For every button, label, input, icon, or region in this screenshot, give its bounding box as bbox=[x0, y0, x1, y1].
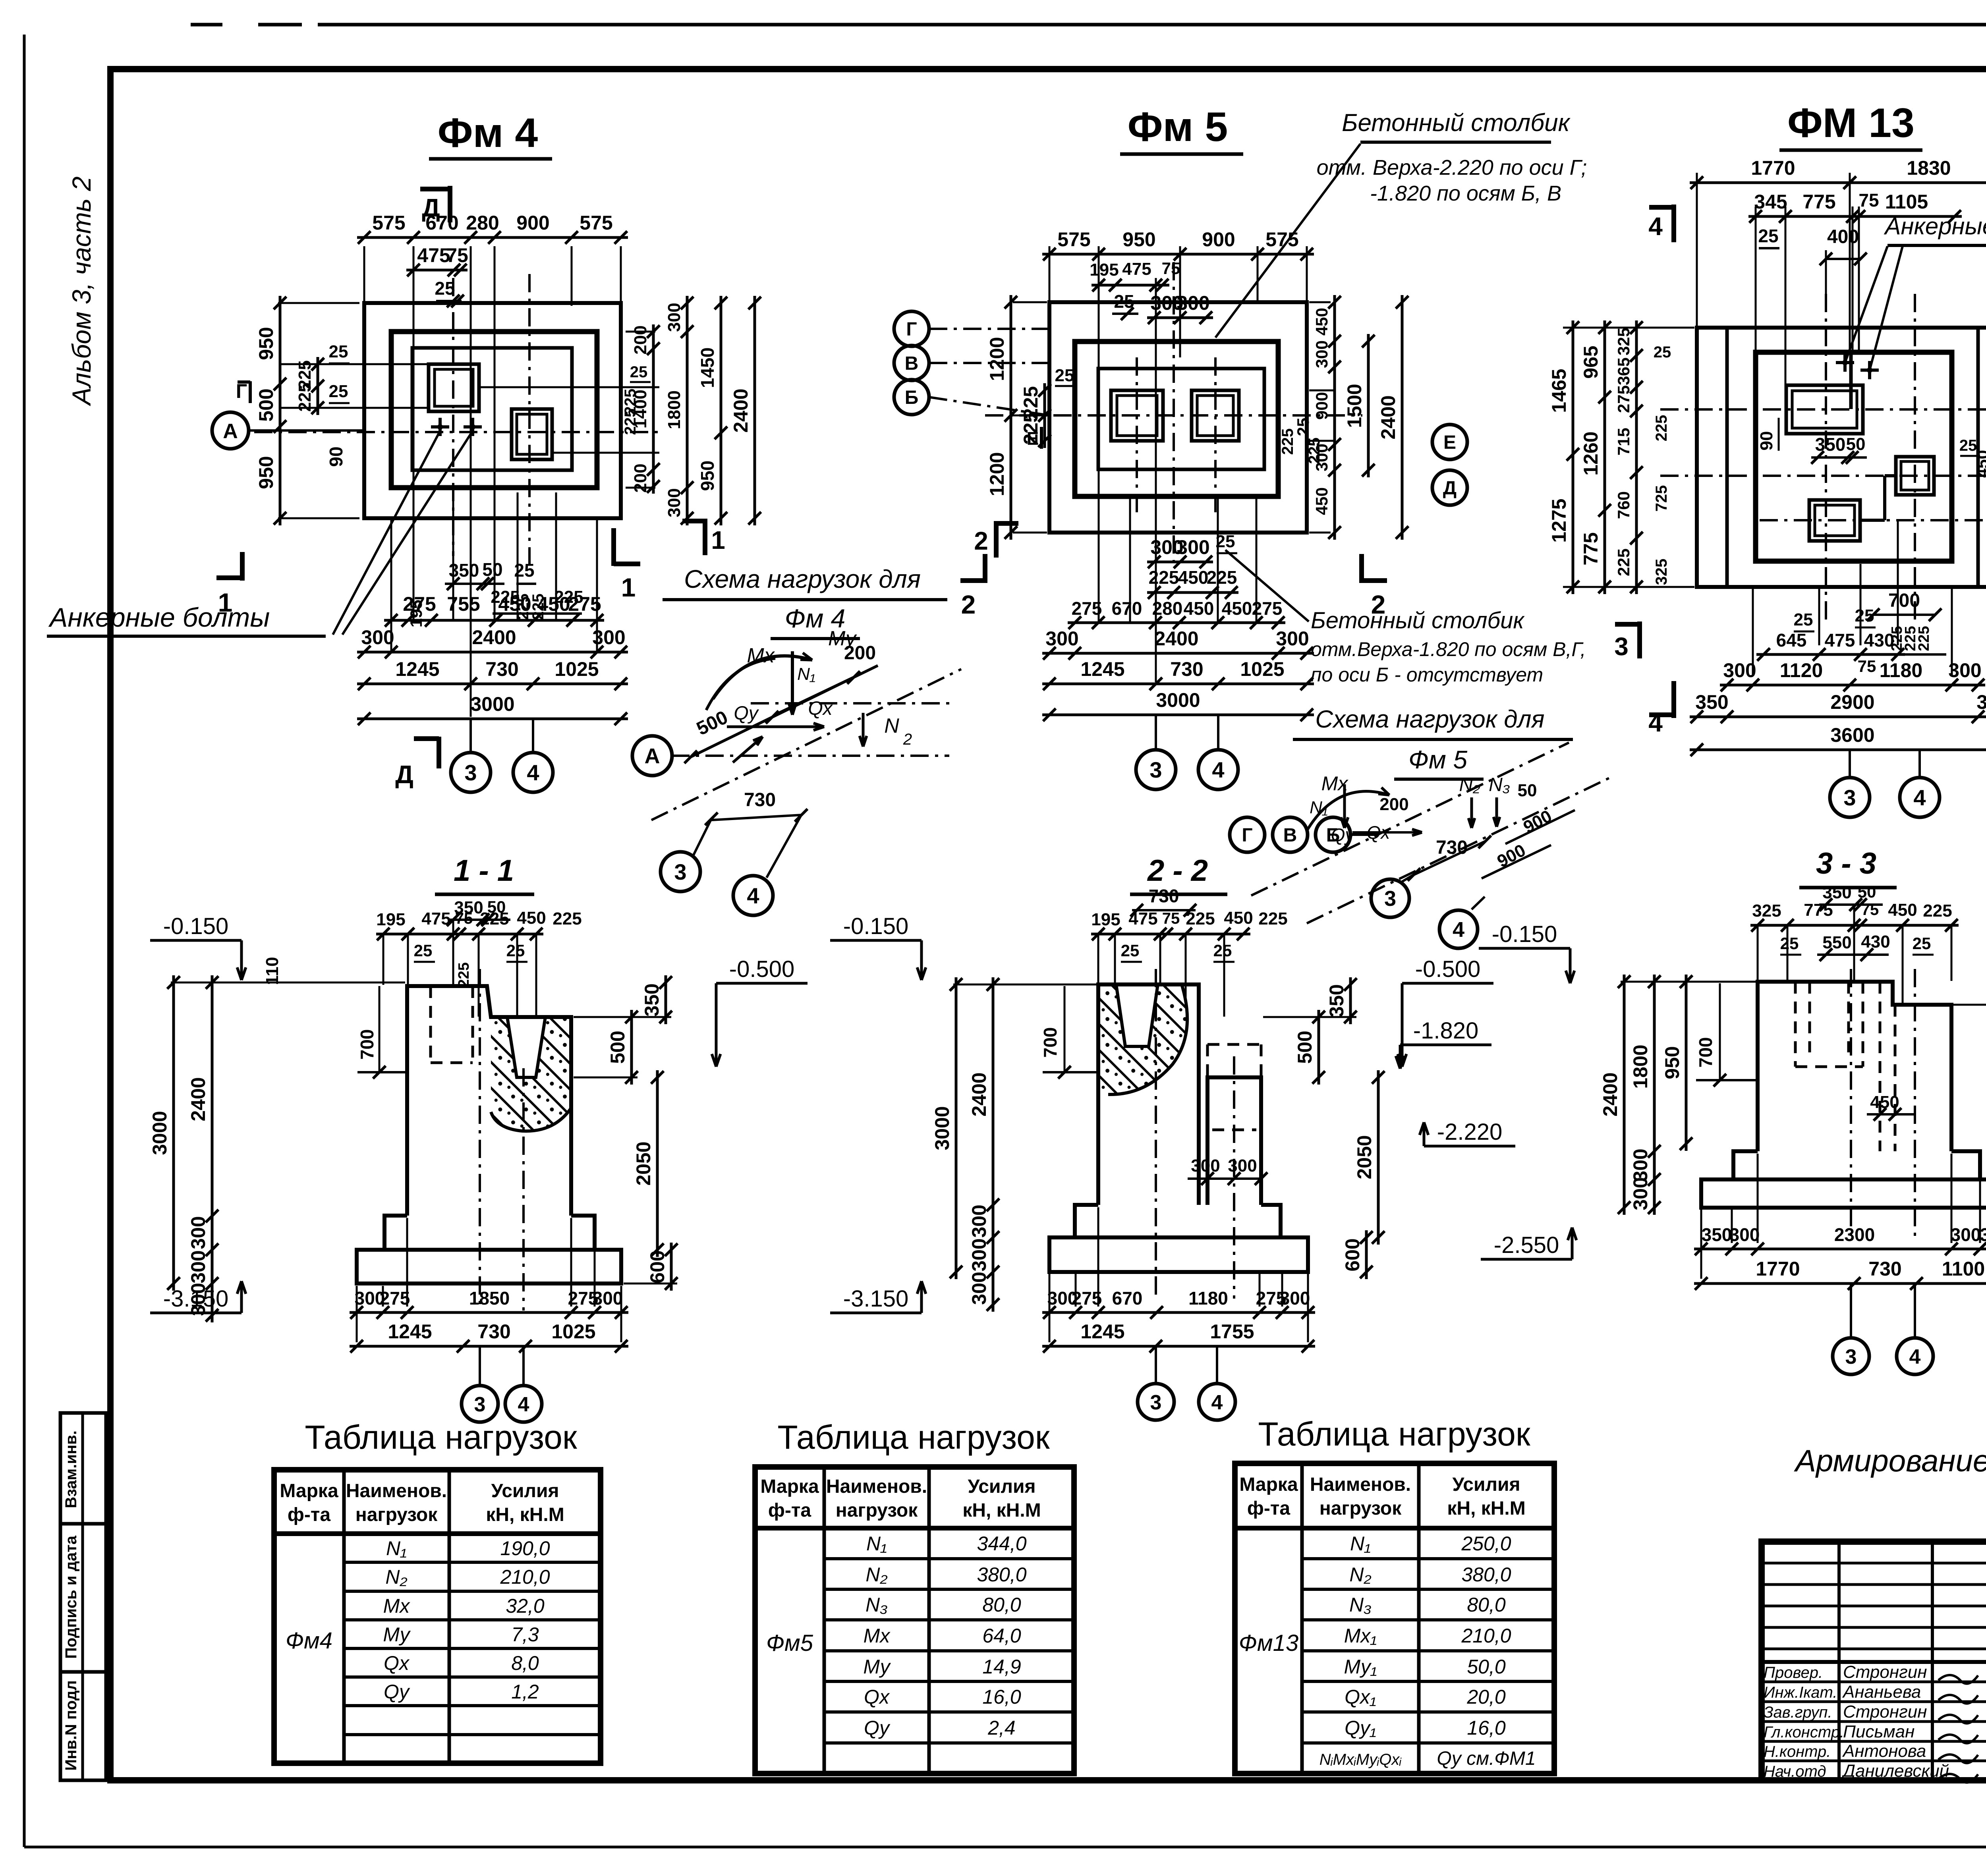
svg-text:16,0: 16,0 bbox=[1467, 1717, 1506, 1739]
svg-text:300: 300 bbox=[1276, 627, 1309, 650]
svg-text:отм. Верха-2.220 по оси Г;: отм. Верха-2.220 по оси Г; bbox=[1317, 156, 1587, 179]
plan FM4 section mark 1 right bbox=[611, 528, 616, 566]
svg-text:N₁: N₁ bbox=[1310, 798, 1328, 817]
svg-text:3: 3 bbox=[1843, 785, 1856, 810]
load table rows bbox=[1302, 1557, 1554, 1560]
svg-text:300: 300 bbox=[968, 1238, 990, 1271]
svg-text:Фм 4: Фм 4 bbox=[438, 110, 538, 156]
plan FM5 ext through bbox=[1155, 278, 1157, 682]
plan FM13 ext top bbox=[1696, 173, 1698, 330]
svg-text:N₂: N₂ bbox=[385, 1566, 407, 1588]
svg-text:575: 575 bbox=[580, 212, 612, 234]
plan FM4 dim right 200-1400-200 bbox=[626, 331, 655, 333]
plan FM13 outer slab bbox=[1697, 328, 1986, 587]
svg-text:4: 4 bbox=[747, 883, 759, 908]
svg-text:300: 300 bbox=[1228, 1156, 1257, 1175]
svg-text:950: 950 bbox=[255, 327, 277, 360]
svg-text:4: 4 bbox=[1913, 785, 1926, 810]
svg-text:300: 300 bbox=[1177, 536, 1209, 558]
svg-text:16,0: 16,0 bbox=[982, 1686, 1021, 1708]
section 1-1 dim bottom 1245-730-1025 bbox=[350, 1345, 628, 1348]
svg-text:Фм13: Фм13 bbox=[1239, 1630, 1298, 1656]
plan FM4 dim top 575-670-280-900-575 bbox=[357, 236, 628, 239]
svg-text:Таблица нагрузок: Таблица нагрузок bbox=[305, 1419, 577, 1456]
plan FM4 centerline horizontal bbox=[254, 431, 659, 433]
svg-text:3: 3 bbox=[464, 760, 477, 785]
svg-text:-0.150: -0.150 bbox=[843, 913, 908, 939]
svg-text:950: 950 bbox=[697, 461, 718, 491]
svg-text:Взам.инв.: Взам.инв. bbox=[62, 1430, 80, 1508]
plan FM13 dim top 1770-1830 bbox=[1690, 181, 1986, 184]
svg-text:700: 700 bbox=[1888, 590, 1920, 611]
svg-text:450: 450 bbox=[537, 593, 570, 615]
load scheme FM4 force Qx arrow bbox=[727, 726, 824, 728]
title block frame bbox=[1762, 1542, 1986, 1780]
plan FM4 dim right 300-1800-300 bbox=[686, 296, 689, 525]
load scheme FM5 bubbles G V B bbox=[1230, 817, 1265, 852]
svg-text:3000: 3000 bbox=[931, 1106, 953, 1150]
svg-text:Марка: Марка bbox=[1239, 1474, 1298, 1495]
plan FM4 anchor plate A bbox=[429, 364, 479, 411]
svg-text:Mx: Mx bbox=[383, 1595, 411, 1617]
svg-text:600: 600 bbox=[1341, 1238, 1364, 1271]
section 2-2 hatch zone bbox=[1098, 984, 1187, 1094]
svg-text:32,0: 32,0 bbox=[506, 1595, 545, 1617]
svg-text:2400: 2400 bbox=[1154, 627, 1198, 650]
svg-text:345: 345 bbox=[1754, 191, 1787, 213]
plan FM5 dim bottom 225-450-225 bbox=[1147, 591, 1238, 594]
svg-text:Qx: Qx bbox=[384, 1652, 410, 1674]
svg-text:Qу: Qу bbox=[734, 703, 759, 724]
title block signatures scribbles bbox=[1938, 1675, 1978, 1684]
plan FM4 dim left 225-225 bbox=[317, 357, 319, 415]
svg-text:755: 755 bbox=[447, 593, 480, 615]
svg-text:3000: 3000 bbox=[1156, 689, 1200, 711]
load scheme FM4 force Qy arrow bbox=[733, 737, 763, 762]
svg-text:700: 700 bbox=[1695, 1037, 1716, 1068]
svg-text:N: N bbox=[884, 714, 899, 737]
plan FM4 outer slab 3000x2400 bbox=[364, 303, 621, 518]
svg-text:50: 50 bbox=[1518, 781, 1537, 800]
svg-text:450: 450 bbox=[498, 593, 531, 615]
plan FM13 dim left stack 1465-1275 bbox=[1563, 327, 1694, 329]
title block revision grid bbox=[1837, 1542, 1841, 1780]
svg-text:325: 325 bbox=[1752, 901, 1781, 921]
svg-text:Фм 5: Фм 5 bbox=[1128, 104, 1228, 150]
section 2-2 step1 bbox=[1075, 1205, 1281, 1237]
svg-text:4: 4 bbox=[1212, 757, 1224, 782]
svg-text:А: А bbox=[645, 744, 660, 768]
section 3-3 top dims row bbox=[1750, 924, 1959, 927]
svg-text:275: 275 bbox=[403, 593, 436, 615]
svg-text:по оси Б - отсутствует: по оси Б - отсутствует bbox=[1311, 664, 1543, 686]
section 2-2 dim right 2050 bbox=[1377, 1070, 1380, 1245]
plan FM13 plate2 L-connect bbox=[1860, 519, 1885, 522]
plan FM5 column plate A bbox=[1111, 390, 1163, 441]
svg-text:300: 300 bbox=[665, 303, 684, 332]
svg-text:Qу: Qу bbox=[864, 1717, 891, 1739]
plan FM4 section mark D top bbox=[448, 186, 452, 222]
plan FM13 plate 1 bbox=[1786, 385, 1863, 434]
svg-text:225: 225 bbox=[1306, 438, 1323, 464]
plan FM13 section mark 4 bottom bbox=[1671, 681, 1676, 718]
section 1-1 bubbles 3 4 bbox=[479, 1346, 481, 1385]
svg-text:75: 75 bbox=[1858, 190, 1879, 210]
svg-text:210,0: 210,0 bbox=[500, 1566, 550, 1588]
svg-text:1465: 1465 bbox=[1548, 369, 1570, 413]
load scheme FM5 bubble 3 bbox=[1402, 874, 1414, 882]
svg-text:Армирование ф-тов см. лист 14,: Армирование ф-тов см. лист 14, 17. bbox=[1794, 1443, 1986, 1478]
section 3-3 dim left 950 700 bbox=[1685, 975, 1688, 1151]
svg-text:Схема нагрузок для: Схема нагрузок для bbox=[684, 565, 921, 593]
svg-text:225: 225 bbox=[1186, 909, 1215, 928]
section 1-1 centerline 4 bbox=[522, 1068, 525, 1310]
load scheme FM5 N2 N3 arrows bbox=[1470, 797, 1473, 828]
plan FM4 dim top 475-75 bbox=[406, 269, 468, 272]
svg-text:Данилевский: Данилевский bbox=[1841, 1761, 1949, 1781]
svg-text:645: 645 bbox=[1776, 630, 1807, 650]
svg-text:1450: 1450 bbox=[697, 347, 718, 388]
section 3-3 hidden socket bbox=[1794, 982, 1797, 1067]
plan FM13 side strips bbox=[1725, 328, 1729, 587]
svg-text:Схема нагрузок для: Схема нагрузок для bbox=[1315, 706, 1544, 733]
section 1-1 hidden dashed lines bbox=[429, 986, 432, 1063]
svg-text:4: 4 bbox=[1648, 212, 1663, 241]
svg-text:50,0: 50,0 bbox=[1467, 1656, 1506, 1678]
plan FM4 dim left 950-500-950 bbox=[278, 302, 359, 304]
section 3-3 step1 bbox=[1733, 1151, 1980, 1179]
anchor bolts leaders FM4 bbox=[333, 431, 440, 635]
svg-text:3: 3 bbox=[1150, 1391, 1162, 1414]
plan FM4 dim bottom 3000 bbox=[357, 718, 628, 720]
svg-text:Qу см.ФМ1: Qу см.ФМ1 bbox=[1437, 1748, 1536, 1769]
svg-text:50: 50 bbox=[1846, 434, 1866, 454]
svg-text:275: 275 bbox=[568, 593, 601, 615]
svg-text:300: 300 bbox=[187, 1250, 209, 1283]
svg-text:Фм 5: Фм 5 bbox=[1408, 745, 1468, 774]
section 2-2 left column outline bbox=[1098, 984, 1199, 1205]
svg-text:1500: 1500 bbox=[1343, 384, 1366, 428]
plan FM5 dim right 450-300-900-300-450 bbox=[1309, 301, 1331, 303]
svg-text:25: 25 bbox=[1913, 934, 1931, 953]
svg-text:275: 275 bbox=[1252, 598, 1283, 619]
load table frame bbox=[755, 1467, 1074, 1774]
svg-text:Антонова: Антонова bbox=[1842, 1741, 1926, 1761]
svg-text:В: В bbox=[905, 353, 919, 374]
svg-text:730: 730 bbox=[1170, 658, 1203, 680]
plan FM5 ext top bbox=[1049, 246, 1051, 304]
svg-text:В: В bbox=[1283, 825, 1297, 846]
plan FM13 dim bottom 300-1120-1180-300 bbox=[1720, 684, 1985, 687]
svg-text:N₂: N₂ bbox=[1459, 774, 1480, 795]
svg-text:-3.150: -3.150 bbox=[163, 1286, 228, 1312]
load scheme FM5 N1 arrow bbox=[1343, 784, 1346, 828]
svg-text:730: 730 bbox=[485, 658, 518, 680]
svg-text:300: 300 bbox=[1723, 659, 1756, 681]
svg-text:25: 25 bbox=[329, 342, 348, 361]
svg-text:Му: Му bbox=[828, 627, 857, 650]
svg-text:730: 730 bbox=[477, 1320, 510, 1343]
svg-text:N₁: N₁ bbox=[386, 1537, 407, 1559]
svg-text:2: 2 bbox=[903, 731, 912, 748]
svg-text:3000: 3000 bbox=[470, 693, 514, 715]
svg-text:-0.150: -0.150 bbox=[163, 913, 228, 939]
section 2-2 bottom slab bbox=[1049, 1237, 1308, 1272]
svg-text:нагрузок: нагрузок bbox=[355, 1504, 438, 1525]
svg-text:Mx: Mx bbox=[864, 1625, 891, 1647]
svg-text:3: 3 bbox=[474, 1393, 486, 1416]
svg-text:25: 25 bbox=[1654, 344, 1671, 361]
svg-text:Зав.груп.: Зав.груп. bbox=[1764, 1704, 1832, 1721]
load scheme FM4 dim 200 bbox=[775, 666, 878, 715]
svg-text:Фм4: Фм4 bbox=[286, 1628, 332, 1654]
svg-text:N₁: N₁ bbox=[1350, 1532, 1371, 1555]
svg-text:2400: 2400 bbox=[968, 1072, 990, 1116]
svg-text:Н.контр.: Н.контр. bbox=[1764, 1743, 1831, 1760]
svg-text:325: 325 bbox=[1614, 328, 1633, 355]
load scheme FM5 moment arc bbox=[1307, 791, 1389, 831]
plan FM4 ext bottom bbox=[390, 520, 392, 651]
section 2-2 ext bottom bbox=[1049, 1274, 1051, 1342]
svg-text:1755: 1755 bbox=[1210, 1320, 1254, 1343]
svg-text:700: 700 bbox=[1040, 1027, 1061, 1058]
svg-text:N₃: N₃ bbox=[865, 1594, 888, 1616]
section 1-1 dim right 500 bbox=[630, 1010, 633, 1085]
svg-text:3: 3 bbox=[1614, 632, 1629, 661]
plan FM5 axis bubbles E D bbox=[1432, 425, 1467, 459]
svg-text:190,0: 190,0 bbox=[500, 1537, 550, 1559]
section 3-3 dim left 2400 bbox=[1621, 981, 1756, 983]
svg-text:730: 730 bbox=[744, 789, 776, 811]
plan FM13 axis bubbles 3 4 bbox=[1849, 750, 1851, 776]
svg-text:670: 670 bbox=[1112, 1288, 1143, 1309]
svg-text:475: 475 bbox=[1128, 909, 1157, 928]
svg-text:300: 300 bbox=[361, 626, 394, 648]
svg-text:N₂: N₂ bbox=[1349, 1563, 1371, 1586]
plan FM5 inner block bbox=[1098, 369, 1264, 469]
plan FM5 centerline plateB bbox=[1214, 357, 1217, 516]
plan FM5 section mark 2 right bbox=[1359, 554, 1364, 583]
svg-text:14,9: 14,9 bbox=[982, 1656, 1021, 1678]
svg-text:Таблица нагрузок: Таблица нагрузок bbox=[777, 1419, 1050, 1456]
section 1-1 dim left 2400-300-300-300 bbox=[211, 975, 214, 1322]
plan FM5 centerline plateA bbox=[1136, 357, 1138, 516]
plan FM4 section mark 1 left bbox=[240, 552, 245, 581]
svg-text:1245: 1245 bbox=[1080, 658, 1124, 680]
svg-text:Му: Му bbox=[383, 1623, 411, 1646]
svg-text:1800: 1800 bbox=[665, 390, 684, 429]
stamp box podpis bbox=[60, 1524, 106, 1672]
plan FM5 dim top 575-950-900-575 bbox=[1042, 253, 1314, 256]
svg-text:2400: 2400 bbox=[187, 1077, 209, 1121]
svg-text:500: 500 bbox=[1294, 1031, 1316, 1063]
plan FM13 opening notch bbox=[1849, 352, 1853, 409]
svg-text:2400: 2400 bbox=[1599, 1072, 1621, 1116]
svg-text:25: 25 bbox=[1216, 532, 1235, 551]
svg-text:300: 300 bbox=[1629, 1177, 1652, 1210]
svg-text:110: 110 bbox=[263, 957, 282, 985]
page outer left edge bbox=[23, 35, 26, 1847]
svg-text:760: 760 bbox=[1614, 491, 1633, 519]
svg-text:90: 90 bbox=[1757, 431, 1776, 451]
section 2-2 dim bottom 1245-1755 bbox=[1042, 1345, 1315, 1348]
svg-text:715: 715 bbox=[1614, 428, 1633, 455]
svg-text:450: 450 bbox=[1312, 487, 1331, 515]
svg-text:775: 775 bbox=[1804, 900, 1833, 920]
svg-text:4: 4 bbox=[518, 1393, 529, 1416]
section 1-1 step1 bbox=[384, 1216, 595, 1250]
svg-text:Бетонный столбик: Бетонный столбик bbox=[1342, 109, 1571, 137]
load scheme FM4 bubble A bbox=[632, 736, 672, 776]
svg-text:225: 225 bbox=[1916, 626, 1932, 651]
svg-text:N₂: N₂ bbox=[865, 1563, 887, 1586]
svg-text:730: 730 bbox=[1868, 1258, 1901, 1280]
svg-text:Mx: Mx bbox=[747, 644, 775, 667]
svg-text:965: 965 bbox=[1580, 345, 1602, 378]
section 1-1 dim bottom 300-275-1850-275-300 bbox=[350, 1311, 628, 1314]
svg-text:-0.500: -0.500 bbox=[729, 956, 794, 982]
section 2-2 centerlines bbox=[1155, 969, 1157, 1299]
plan FM4 dim right 2400 bbox=[753, 296, 756, 525]
section mark 1 top scheme bbox=[703, 519, 707, 555]
svg-text:N₁: N₁ bbox=[866, 1532, 887, 1555]
svg-text:Фм5: Фм5 bbox=[766, 1630, 813, 1656]
section mark 2 top right scheme bbox=[994, 521, 999, 558]
load table rows bbox=[344, 1561, 601, 1564]
plan FM5 dim bottom 3000 bbox=[1042, 714, 1314, 716]
svg-text:Усилия: Усилия bbox=[968, 1476, 1036, 1497]
svg-text:950: 950 bbox=[1122, 228, 1155, 251]
plan FM4 section mark D bottom bbox=[437, 737, 441, 768]
svg-text:300: 300 bbox=[593, 1288, 623, 1309]
svg-text:300: 300 bbox=[1177, 292, 1209, 314]
svg-text:275: 275 bbox=[1072, 1288, 1102, 1309]
svg-text:225: 225 bbox=[1149, 567, 1179, 588]
svg-text:75: 75 bbox=[455, 910, 473, 927]
svg-text:730: 730 bbox=[1149, 886, 1179, 906]
section 2-2 stub dashed top bbox=[1206, 1044, 1209, 1077]
anchor bolts leaders FM13 bbox=[1845, 246, 1887, 363]
svg-text:400: 400 bbox=[1827, 226, 1859, 247]
plan FM5 dim bottom 275-670-280-450-450-275 bbox=[1068, 621, 1285, 624]
svg-text:Усилия: Усилия bbox=[1452, 1474, 1520, 1495]
svg-text:450: 450 bbox=[1312, 308, 1331, 336]
svg-text:Стронгин: Стронгин bbox=[1843, 1662, 1927, 1682]
svg-text:-0.500: -0.500 bbox=[1415, 956, 1480, 982]
load scheme FM5 bubble 4 bbox=[1472, 897, 1485, 909]
svg-text:350: 350 bbox=[1325, 984, 1348, 1017]
plan FM4 axis bubble A bbox=[212, 412, 249, 449]
svg-text:225: 225 bbox=[480, 909, 509, 928]
plan FM13 dim bottom 350-2900-350 bbox=[1690, 716, 1986, 718]
svg-text:3600: 3600 bbox=[1830, 724, 1874, 746]
svg-text:380,0: 380,0 bbox=[977, 1563, 1026, 1586]
svg-text:730: 730 bbox=[1436, 837, 1468, 858]
plan FM13 centerline h1 bbox=[1660, 408, 1986, 411]
plan FM5 dim right 1500 bbox=[1367, 334, 1370, 477]
load table frame bbox=[274, 1470, 601, 1763]
section 2-2 dim right 600 bbox=[1365, 1230, 1368, 1279]
plan FM13 dim top 345-775-75-1105 bbox=[1748, 215, 1962, 218]
svg-text:NᵢMxᵢMуᵢQxᵢ: NᵢMxᵢMуᵢQxᵢ bbox=[1319, 1751, 1402, 1768]
svg-text:2 - 2: 2 - 2 bbox=[1147, 854, 1208, 888]
plan FM4 extension lines horizontal bbox=[280, 363, 429, 365]
svg-text:225: 225 bbox=[622, 409, 639, 435]
plan FM5 dim top 300-300 bbox=[1147, 317, 1213, 319]
plan FM5 dim bottom 1245-730-1025 bbox=[1042, 683, 1314, 685]
plan FM5 dim left 225-225 bbox=[1043, 383, 1046, 448]
svg-text:475: 475 bbox=[417, 244, 450, 266]
svg-text:75: 75 bbox=[446, 244, 468, 266]
svg-text:Усилия: Усилия bbox=[491, 1480, 559, 1502]
svg-text:300: 300 bbox=[1629, 1148, 1652, 1181]
svg-text:350: 350 bbox=[641, 983, 663, 1016]
svg-text:3 - 3: 3 - 3 bbox=[1816, 847, 1876, 880]
load scheme FM4 diagonal 1 bbox=[691, 666, 878, 757]
svg-text:350: 350 bbox=[1702, 1224, 1732, 1245]
svg-text:1120: 1120 bbox=[1780, 659, 1823, 681]
svg-text:80,0: 80,0 bbox=[1467, 1594, 1506, 1616]
svg-text:350: 350 bbox=[1815, 434, 1846, 455]
svg-text:25: 25 bbox=[1794, 610, 1813, 629]
svg-text:-2.220: -2.220 bbox=[1437, 1119, 1502, 1145]
load scheme FM4 moment arcs bbox=[713, 656, 812, 699]
load table frame bbox=[1235, 1463, 1554, 1774]
svg-text:1275: 1275 bbox=[1548, 498, 1570, 542]
plan FM13 section mark 4 top bbox=[1671, 205, 1676, 242]
svg-text:25: 25 bbox=[435, 278, 455, 299]
svg-text:225: 225 bbox=[553, 909, 582, 928]
svg-text:1245: 1245 bbox=[395, 658, 439, 680]
svg-text:300: 300 bbox=[1729, 1224, 1760, 1245]
svg-text:300: 300 bbox=[187, 1216, 209, 1249]
svg-text:600: 600 bbox=[646, 1250, 668, 1283]
svg-text:275: 275 bbox=[1614, 385, 1633, 413]
svg-text:500: 500 bbox=[255, 388, 277, 421]
svg-text:4: 4 bbox=[527, 760, 539, 785]
svg-text:Му: Му bbox=[863, 1656, 891, 1678]
svg-text:Б: Б bbox=[905, 387, 919, 408]
load table rows bbox=[824, 1557, 1074, 1560]
svg-text:Стронгин: Стронгин bbox=[1843, 1702, 1927, 1722]
section 2-2 socket bbox=[1116, 984, 1158, 1046]
svg-text:25: 25 bbox=[1758, 226, 1778, 246]
svg-text:450: 450 bbox=[1222, 598, 1252, 619]
svg-text:195: 195 bbox=[1090, 260, 1119, 280]
svg-text:Д: Д bbox=[1443, 478, 1457, 499]
svg-text:365: 365 bbox=[1614, 357, 1633, 385]
svg-text:300: 300 bbox=[968, 1204, 990, 1237]
section 3-3 dim bottom 1770-730-1100 bbox=[1694, 1282, 1986, 1285]
section 2-2 dim right 350-500 bbox=[1349, 977, 1352, 1024]
svg-text:90: 90 bbox=[326, 446, 346, 467]
title block signature rows bbox=[1762, 1681, 1986, 1683]
load scheme FM4 axis line upper bbox=[751, 702, 949, 704]
section 1-1 socket bbox=[507, 1017, 545, 1077]
svg-text:ФМ 13: ФМ 13 bbox=[1787, 100, 1915, 146]
svg-text:N₃: N₃ bbox=[1349, 1594, 1372, 1616]
load scheme FM5 diagonal 1 bbox=[1251, 743, 1569, 896]
svg-text:-0.150: -0.150 bbox=[1492, 921, 1557, 947]
svg-text:25: 25 bbox=[1213, 941, 1232, 960]
svg-text:отм.Верха-1.820 по осям В,Г,: отм.Верха-1.820 по осям В,Г, bbox=[1311, 638, 1586, 660]
svg-text:Наименов.: Наименов. bbox=[1310, 1474, 1411, 1495]
section 2-2 dim bottom 300-275-670-1180-275-300 bbox=[1042, 1311, 1315, 1314]
plan FM4 centerline vertical bbox=[528, 274, 531, 564]
section 3-3 bottom slab bbox=[1701, 1179, 1986, 1208]
svg-text:700: 700 bbox=[357, 1029, 377, 1060]
plan FM5 middle step bbox=[1075, 342, 1278, 496]
